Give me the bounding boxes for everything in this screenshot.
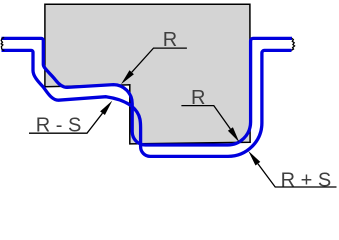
svg-text:R + S: R + S [281, 170, 332, 192]
sheet inner surface (blue, hugs the block) [2, 38, 293, 145]
svg-text:R - S: R - S [36, 114, 82, 136]
punch/form block (gray die with stepped bottom) [45, 4, 250, 144]
left break line [1, 37, 4, 50]
arrowhead R1 [121, 70, 134, 84]
arrowhead R+S [248, 151, 260, 166]
svg-text:R: R [163, 29, 177, 51]
leader R-S (lower left) [29, 113, 103, 133]
arrowhead R2 [228, 127, 239, 142]
leader R2 (lower right) [181, 106, 230, 129]
arrowhead R-S [100, 101, 112, 115]
svg-text:R: R [191, 87, 205, 109]
leader R+S (bottom right) [258, 164, 337, 187]
right break line [291, 38, 294, 50]
leader R1 (top) [132, 48, 187, 72]
sheet outer surface (blue) [2, 50, 292, 156]
